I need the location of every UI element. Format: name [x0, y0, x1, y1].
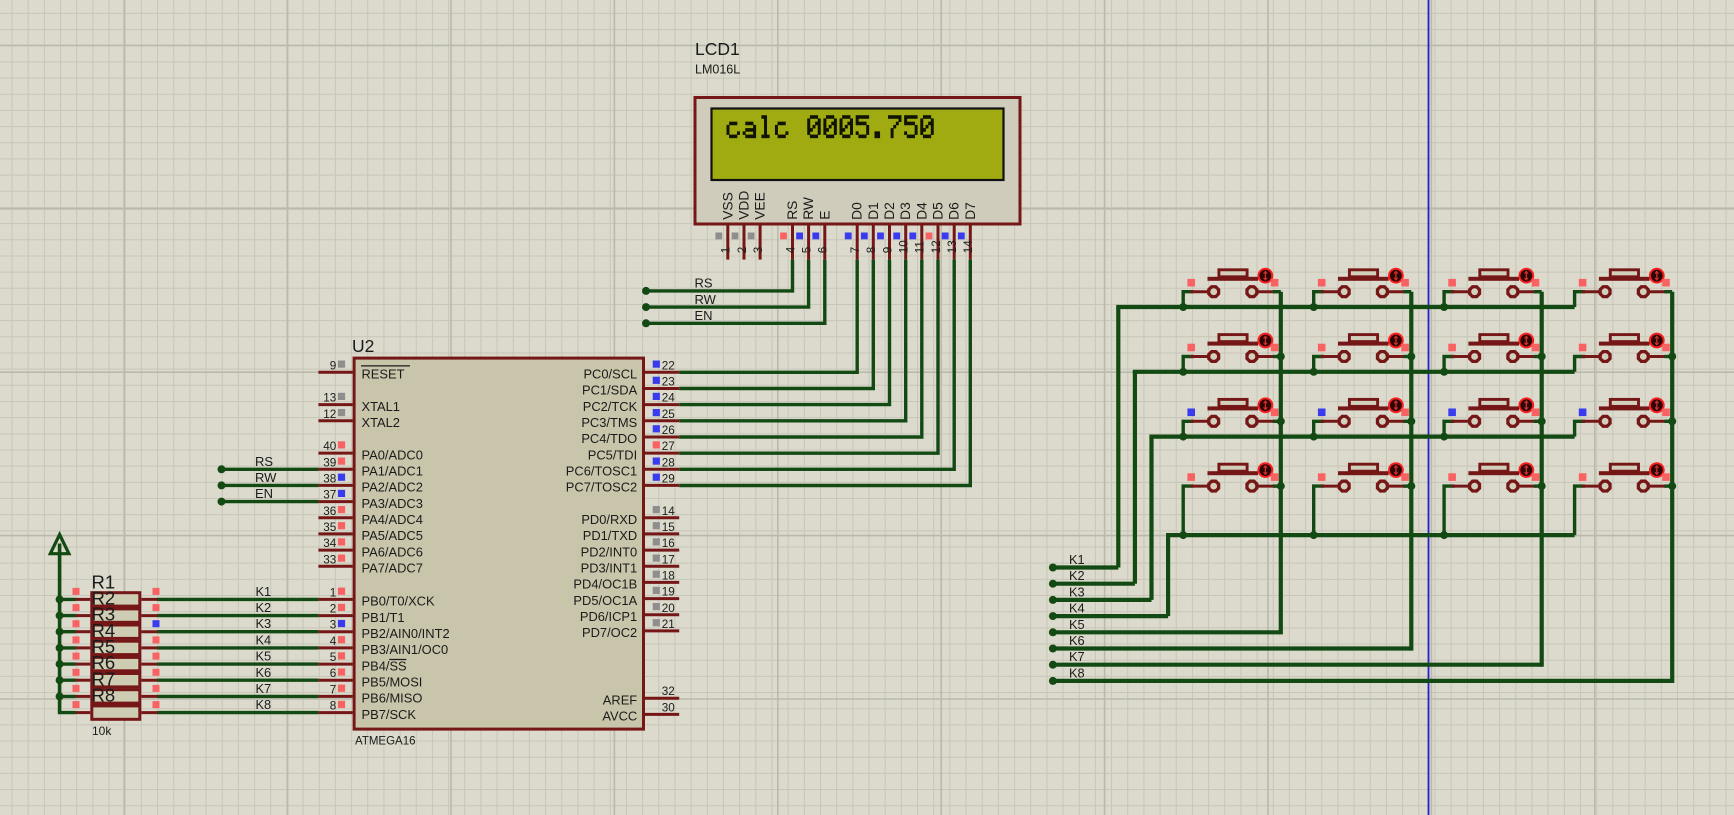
wire D0 LCD pin 7 to MCU pin 22: [679, 260, 857, 373]
svg-text:35: 35: [323, 521, 337, 534]
svg-text:3: 3: [752, 247, 765, 254]
wire K8 keypad: [1049, 665, 1672, 685]
svg-text:PC0/SCL: PC0/SCL: [583, 367, 637, 382]
svg-text:12: 12: [323, 408, 336, 421]
svg-text:39: 39: [323, 456, 336, 469]
svg-text:RS: RS: [785, 201, 800, 220]
LCD pin 8 stub: [861, 224, 878, 260]
svg-text:23: 23: [662, 376, 675, 389]
U2 pin 6 PB5/MOSI: [318, 667, 422, 689]
push button row 4 col 4: [1575, 463, 1673, 535]
svg-text:D6: D6: [947, 202, 962, 220]
U2 pin 4 PB3/AIN1/OC0: [318, 635, 448, 657]
U2 pin 38 PA2/ADC2: [318, 472, 422, 494]
svg-text:AVCC: AVCC: [602, 709, 637, 724]
svg-text:1: 1: [720, 247, 733, 254]
svg-text:U2: U2: [352, 336, 374, 356]
svg-text:PD5/OC1A: PD5/OC1A: [573, 593, 637, 608]
svg-text:D5: D5: [931, 202, 946, 220]
microcontroller U2 ATMEGA16 body: [354, 358, 643, 729]
U2 pin 5 PB4/SS: [318, 651, 406, 673]
svg-text:PD4/OC1B: PD4/OC1B: [573, 577, 637, 592]
svg-text:1: 1: [330, 586, 337, 599]
svg-text:7: 7: [330, 683, 337, 696]
U2 pin 12 XTAL2: [318, 408, 400, 430]
svg-text:16: 16: [662, 537, 675, 550]
svg-text:PC6/TOSC1: PC6/TOSC1: [566, 464, 637, 479]
wire keypad column 4: [1668, 292, 1676, 683]
svg-text:38: 38: [323, 472, 336, 485]
resistor R2 pins: [58, 604, 160, 616]
U2 pin 34 PA6/ADC6: [318, 537, 422, 559]
svg-text:PC5/TDI: PC5/TDI: [588, 447, 637, 462]
svg-text:RESET: RESET: [362, 367, 405, 382]
svg-text:PD6/ICP1: PD6/ICP1: [580, 609, 637, 624]
wire keypad row 2 bus: [1133, 368, 1575, 584]
svg-text:9: 9: [881, 247, 894, 254]
LCD pin 5 stub: [796, 224, 813, 260]
LCD pin 13 stub: [942, 224, 959, 260]
U2 pin 8 PB7/SCK: [318, 700, 416, 722]
svg-text:6: 6: [817, 247, 830, 254]
svg-text:ATMEGA16: ATMEGA16: [355, 736, 416, 748]
resistor R1 pins: [58, 588, 160, 600]
svg-text:K8: K8: [1069, 665, 1085, 680]
wire K3 keypad: [1049, 584, 1152, 604]
svg-text:6: 6: [330, 667, 337, 680]
wire K5 resistor R5 to U2 pin 5: [158, 649, 319, 665]
U2 pin 37 PA3/ADC3: [318, 489, 422, 511]
LCD pin 11 stub: [909, 224, 926, 260]
U2 pin 3 PB2/AIN0/INT2: [318, 619, 449, 641]
svg-text:3: 3: [330, 619, 337, 632]
svg-text:27: 27: [662, 440, 675, 453]
U2 pin 25 PC3/TMS: [581, 408, 679, 430]
svg-text:PB6/MISO: PB6/MISO: [362, 691, 423, 706]
svg-text:E: E: [817, 211, 832, 220]
svg-text:5: 5: [330, 651, 337, 664]
svg-text:PD1/TXD: PD1/TXD: [583, 528, 637, 543]
wire K4 keypad: [1049, 601, 1168, 621]
push button row 1 col 3: [1444, 269, 1542, 307]
svg-text:9: 9: [330, 359, 337, 372]
LCD pin 1 stub: [715, 224, 732, 260]
svg-text:K5: K5: [256, 649, 272, 664]
U2 pin 1 PB0/T0/XCK: [318, 586, 435, 608]
U2 pin 27 PC5/TDI: [588, 440, 679, 462]
resistor pack R1 labels: [92, 571, 116, 738]
svg-text:PA0/ADC0: PA0/ADC0: [362, 447, 423, 462]
LCD pin 14 stub: [958, 224, 975, 260]
svg-text:15: 15: [662, 521, 676, 534]
wire LCD RS: [642, 260, 793, 295]
svg-text:PD7/OC2: PD7/OC2: [582, 625, 637, 640]
svg-text:14: 14: [662, 505, 676, 518]
wire K1 keypad: [1049, 552, 1118, 572]
U2 pin 17 PD3/INT1: [581, 553, 680, 575]
wire K2 keypad: [1049, 568, 1135, 588]
svg-text:7: 7: [849, 247, 862, 254]
wire K5 keypad: [1049, 617, 1281, 637]
wire keypad row 3 bus: [1149, 433, 1574, 600]
svg-text:17: 17: [662, 553, 675, 566]
svg-text:D0: D0: [850, 202, 865, 220]
U2 pin 21 PD7/OC2: [582, 618, 679, 640]
wire LCD RW: [642, 260, 809, 312]
push button row 2 col 2: [1314, 334, 1412, 372]
svg-text:K4: K4: [1069, 601, 1085, 616]
svg-text:PA3/ADC3: PA3/ADC3: [362, 496, 423, 511]
svg-text:8: 8: [865, 247, 878, 254]
svg-text:24: 24: [662, 392, 676, 405]
svg-text:K1: K1: [1069, 552, 1085, 567]
svg-text:13: 13: [323, 392, 336, 405]
svg-text:K2: K2: [256, 600, 272, 615]
resistor R3 pins: [58, 620, 160, 632]
svg-text:PB3/AIN1/OC0: PB3/AIN1/OC0: [362, 642, 449, 657]
svg-text:RS: RS: [255, 454, 273, 469]
LCD LCD1 label: [695, 39, 740, 77]
svg-text:40: 40: [323, 440, 337, 453]
LCD pin 4 stub: [780, 224, 797, 260]
svg-text:PA6/ADC6: PA6/ADC6: [362, 544, 423, 559]
U2 pin 40 PA0/ADC0: [318, 440, 422, 462]
LCD pin 12 stub: [926, 224, 943, 260]
wire K7 resistor R7 to U2 pin 7: [158, 681, 319, 697]
LCD pin 3 stub: [748, 224, 765, 260]
wire K2 resistor R2 to U2 pin 2: [158, 600, 319, 616]
wire K3 resistor R3 to U2 pin 3: [158, 616, 319, 632]
svg-text:18: 18: [662, 569, 675, 582]
svg-text:PC7/TOSC2: PC7/TOSC2: [566, 480, 637, 495]
svg-text:D2: D2: [882, 202, 897, 220]
svg-text:VSS: VSS: [720, 192, 735, 220]
svg-text:PD3/INT1: PD3/INT1: [581, 561, 638, 576]
wire D4 LCD pin 11 to MCU pin 26: [679, 260, 922, 437]
push button row 1 col 4: [1575, 269, 1673, 307]
svg-text:XTAL2: XTAL2: [362, 415, 400, 430]
U2 pin 19 PD5/OC1A: [573, 586, 679, 608]
svg-text:PA1/ADC1: PA1/ADC1: [362, 464, 423, 479]
svg-text:25: 25: [662, 408, 676, 421]
LCD pin 9 stub: [877, 224, 894, 260]
push button row 1 col 1: [1183, 269, 1281, 307]
wire D1 LCD pin 8 to MCU pin 23: [679, 260, 873, 389]
svg-text:D3: D3: [898, 202, 913, 220]
U2 pin 15 PD1/TXD: [583, 521, 679, 543]
svg-text:11: 11: [914, 241, 927, 253]
svg-text:5: 5: [800, 246, 813, 253]
U2 pin 18 PD4/OC1B: [573, 569, 679, 591]
U2 pin 36 PA4/ADC4: [318, 505, 422, 527]
LCD pin 6 stub: [812, 224, 829, 260]
push button row 3 col 1: [1183, 398, 1281, 436]
U2 pin 33 PA7/ADC7: [318, 553, 422, 575]
U2 pin 23 PC1/SDA: [582, 376, 679, 398]
wire D2 LCD pin 9 to MCU pin 24: [679, 260, 889, 405]
resistor R7 pins: [58, 685, 160, 697]
svg-text:VEE: VEE: [753, 192, 768, 220]
wire keypad row 1 bus: [1116, 303, 1574, 568]
svg-text:K3: K3: [1069, 584, 1085, 599]
svg-text:PC1/SDA: PC1/SDA: [582, 383, 638, 398]
wire resistor common bus: [56, 595, 64, 700]
push button row 4 col 3: [1444, 463, 1542, 535]
LCD pin 7 stub: [845, 224, 862, 260]
wire keypad column 1: [1277, 292, 1285, 635]
U2 pin 2 PB1/T1: [318, 603, 404, 625]
svg-text:4: 4: [330, 635, 337, 648]
U2 pin 13 XTAL1: [318, 392, 400, 414]
power symbol VCC arrow: [50, 535, 69, 713]
LCD pin 2 stub: [732, 224, 749, 260]
LCD pin name labels: [720, 191, 978, 220]
svg-text:K8: K8: [256, 697, 272, 712]
svg-text:PB4/SS: PB4/SS: [362, 658, 407, 673]
svg-text:12: 12: [930, 240, 943, 253]
svg-text:10: 10: [898, 240, 911, 254]
wire LCD EN: [642, 260, 825, 328]
svg-text:PA2/ADC2: PA2/ADC2: [362, 480, 423, 495]
svg-text:K6: K6: [256, 665, 272, 680]
svg-text:20: 20: [662, 602, 676, 615]
svg-text:K3: K3: [256, 616, 272, 631]
svg-text:PC4/TDO: PC4/TDO: [581, 431, 637, 446]
push button row 2 col 1: [1183, 334, 1281, 372]
wire K1 resistor R1 to U2 pin 1: [158, 584, 319, 600]
svg-text:EN: EN: [695, 308, 713, 323]
svg-text:26: 26: [662, 424, 675, 437]
U2 pin 30 AVCC: [602, 701, 679, 723]
svg-text:2: 2: [736, 247, 749, 254]
push button row 4 col 2: [1314, 463, 1412, 535]
push button row 2 col 4: [1575, 334, 1673, 372]
wire K6 keypad: [1049, 633, 1411, 653]
LCD display text calc 0005.750: [727, 115, 934, 138]
svg-text:PA5/ADC5: PA5/ADC5: [362, 528, 423, 543]
svg-text:XTAL1: XTAL1: [362, 399, 400, 414]
svg-text:10k: 10k: [92, 724, 112, 738]
U2 pin 24 PC2/TCK: [583, 392, 679, 414]
svg-text:LCD1: LCD1: [695, 39, 740, 59]
svg-text:21: 21: [662, 618, 675, 631]
svg-text:RW: RW: [801, 197, 816, 220]
svg-text:EN: EN: [255, 486, 273, 501]
U2 pin 39 PA1/ADC1: [318, 456, 422, 478]
wire K8 resistor R8 to U2 pin 8: [158, 697, 319, 713]
svg-text:34: 34: [323, 537, 337, 550]
svg-text:36: 36: [323, 505, 336, 518]
U2 pin 9 RESET: [318, 359, 410, 381]
svg-text:K4: K4: [256, 632, 272, 647]
svg-text:PD2/INT0: PD2/INT0: [581, 544, 638, 559]
push button row 4 col 1: [1183, 463, 1281, 535]
wire RS to U2: [218, 454, 319, 474]
resistor R4 pins: [58, 636, 160, 648]
svg-text:RW: RW: [255, 470, 277, 485]
svg-text:PB1/T1: PB1/T1: [362, 610, 405, 625]
LCD LCD1 LM016L body: [695, 98, 1020, 225]
svg-text:19: 19: [662, 586, 675, 599]
svg-text:14: 14: [962, 240, 975, 254]
svg-text:2: 2: [330, 603, 337, 616]
U2 pin 7 PB6/MISO: [318, 683, 422, 705]
LCD screen: [712, 109, 1004, 181]
svg-text:4: 4: [784, 246, 797, 253]
resistor R8 pins: [58, 701, 160, 713]
svg-text:D4: D4: [914, 202, 929, 220]
push button row 2 col 3: [1444, 334, 1542, 372]
U2 pin 14 PD0/RXD: [581, 505, 679, 527]
wire EN to U2: [218, 486, 319, 506]
resistor pack R1 10k body: [92, 593, 140, 720]
svg-text:PA7/ADC7: PA7/ADC7: [362, 561, 423, 576]
resistor R5 pins: [58, 653, 160, 665]
svg-text:13: 13: [946, 240, 959, 253]
wire RW to U2: [218, 470, 319, 490]
U2 pin 35 PA5/ADC5: [318, 521, 422, 543]
svg-text:K1: K1: [256, 584, 272, 599]
svg-text:PB0/T0/XCK: PB0/T0/XCK: [362, 594, 435, 609]
svg-text:8: 8: [330, 700, 337, 713]
svg-text:28: 28: [662, 456, 675, 469]
svg-text:K7: K7: [256, 681, 272, 696]
U2 pin 28 PC6/TOSC1: [566, 456, 679, 478]
svg-text:29: 29: [662, 472, 675, 485]
svg-text:PB2/AIN0/INT2: PB2/AIN0/INT2: [362, 626, 450, 641]
svg-text:K5: K5: [1069, 617, 1085, 632]
svg-text:AREF: AREF: [603, 692, 638, 707]
wire K4 resistor R4 to U2 pin 4: [158, 632, 319, 648]
svg-text:K7: K7: [1069, 649, 1085, 664]
svg-text:PD0/RXD: PD0/RXD: [581, 512, 637, 527]
svg-text:PB5/MOSI: PB5/MOSI: [362, 674, 423, 689]
wire keypad row 4 bus: [1166, 531, 1575, 616]
U2 pin 29 PC7/TOSC2: [566, 472, 679, 494]
wire K6 resistor R6 to U2 pin 6: [158, 665, 319, 680]
svg-text:K2: K2: [1069, 568, 1085, 583]
wire D6 LCD pin 13 to MCU pin 28: [679, 260, 954, 470]
microcontroller U2 label: [352, 336, 374, 356]
svg-text:LM016L: LM016L: [695, 63, 740, 77]
push button row 1 col 2: [1314, 269, 1412, 307]
wire D3 LCD pin 10 to MCU pin 25: [679, 260, 906, 421]
push button row 3 col 3: [1444, 398, 1542, 436]
U2 pin 26 PC4/TDO: [581, 424, 679, 446]
microcontroller U2 value ATMEGA16: [355, 736, 416, 748]
wire keypad column 2: [1407, 292, 1415, 651]
U2 pin 22 PC0/SCL: [583, 359, 679, 381]
svg-text:33: 33: [323, 553, 336, 566]
U2 pin 20 PD6/ICP1: [580, 602, 679, 624]
svg-text:RS: RS: [695, 276, 713, 291]
resistor R6 pins: [58, 669, 160, 680]
svg-text:VDD: VDD: [737, 191, 752, 220]
wire D5 LCD pin 12 to MCU pin 27: [679, 260, 938, 454]
svg-text:32: 32: [662, 685, 675, 698]
svg-text:PA4/ADC4: PA4/ADC4: [362, 512, 423, 527]
svg-text:D7: D7: [963, 202, 978, 220]
svg-text:K6: K6: [1069, 633, 1085, 648]
U2 pin 16 PD2/INT0: [581, 537, 680, 559]
svg-text:37: 37: [323, 489, 336, 502]
svg-text:R8: R8: [92, 685, 116, 706]
push button row 3 col 4: [1575, 398, 1673, 436]
svg-text:PB7/SCK: PB7/SCK: [362, 707, 417, 722]
svg-text:PC2/TCK: PC2/TCK: [583, 399, 638, 414]
svg-text:RW: RW: [695, 292, 717, 307]
push button row 3 col 2: [1314, 398, 1412, 436]
svg-text:D1: D1: [866, 202, 881, 220]
svg-text:30: 30: [662, 701, 676, 714]
svg-text:PC3/TMS: PC3/TMS: [581, 415, 637, 430]
sheet border line: [1428, 0, 1430, 815]
wire keypad column 3: [1538, 292, 1546, 667]
U2 pin 32 AREF: [603, 685, 679, 707]
wire D7 LCD pin 14 to MCU pin 29: [679, 260, 970, 486]
wire K7 keypad: [1049, 649, 1542, 669]
LCD pin 10 stub: [893, 224, 910, 260]
svg-text:22: 22: [662, 359, 675, 372]
